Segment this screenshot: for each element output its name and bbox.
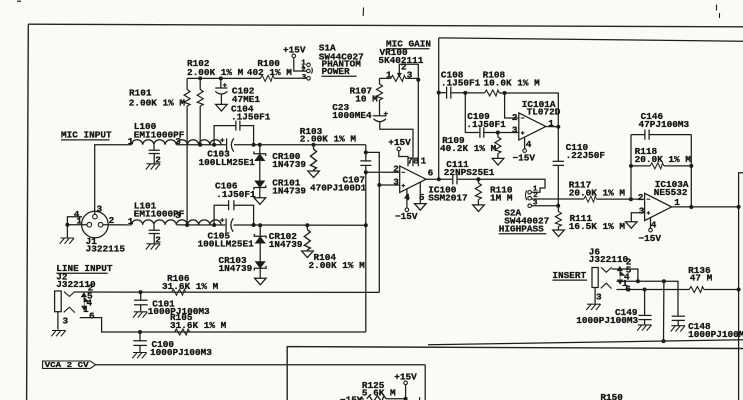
inductor L101 EMI1000PF [128, 200, 221, 245]
wire riser to low bus [663, 281, 665, 341]
junction return/output riser [662, 279, 666, 283]
wire R118 loop left vertical [630, 135, 632, 200]
junction send/return [636, 279, 640, 283]
terminal -15V lower [340, 395, 363, 400]
junction low bus [662, 339, 666, 343]
connector J1 XLR J322115 [74, 203, 126, 254]
junction C104 left [212, 143, 216, 147]
junction C106 right [252, 223, 256, 227]
connector J6 insert jack [592, 256, 632, 302]
resistor R105 [170, 312, 227, 335]
capacitor C110 .22J50F [553, 127, 606, 206]
node MIC INPUT label [61, 130, 112, 141]
svg-text:−15V: −15V [513, 152, 536, 163]
resistor R103 [300, 126, 357, 171]
zener CR103 1N4739 [219, 255, 267, 278]
svg-text:402 1% M: 402 1% M [247, 67, 292, 78]
svg-text:31.6K 1% M: 31.6K 1% M [170, 320, 227, 331]
svg-text:+: + [220, 218, 225, 226]
svg-text:3: 3 [596, 292, 602, 303]
junction output/R118 [689, 205, 693, 209]
wire XLR pin2 to L101 [103, 224, 132, 226]
svg-text:3: 3 [512, 124, 518, 135]
resistor R102 [184, 58, 244, 225]
ground C149 [637, 325, 651, 331]
capacitor C146 47PJ100M3 [631, 111, 691, 140]
resistor R111 [555, 206, 625, 232]
junction C108/C109 [463, 91, 467, 95]
wire stub lower [419, 397, 421, 400]
junction R125/+15V [404, 397, 408, 400]
resistor R104 [304, 225, 365, 271]
junction C100 [138, 330, 142, 334]
wire IC103A output [672, 206, 739, 208]
ground R109 [492, 158, 504, 165]
wire IC100 output [426, 178, 452, 180]
wire IC101A pin4 to -15V [513, 137, 536, 163]
svg-text:100LLM25E1: 100LLM25E1 [199, 157, 256, 168]
scan tick top-left [17, 0, 21, 2]
junction C110/R111/S2A [556, 204, 560, 208]
wire node B down through mic- to R105 row [365, 172, 367, 332]
switch S1A phantom power [283, 44, 312, 82]
resistor R107 [350, 78, 383, 115]
wire S2A pin2 to R117/IC103 pin2 [531, 198, 583, 200]
wire R118 loop right vertical [690, 135, 692, 207]
op-amp IC103A NE5532 [638, 179, 689, 230]
svg-text:7: 7 [407, 155, 413, 166]
svg-text:SSM2017: SSM2017 [428, 193, 467, 204]
svg-text:47 M: 47 M [690, 273, 713, 284]
svg-text:1N4739: 1N4739 [269, 239, 303, 250]
svg-text:+: + [220, 137, 225, 145]
svg-text:470PJ100D1: 470PJ100D1 [310, 183, 367, 194]
capacitor C23 1000ME4 electrolytic [332, 102, 413, 166]
scan tick top-middle [362, 8, 364, 17]
wire IC100 pin5 to ground [419, 182, 421, 203]
resistor R100 402 [247, 58, 307, 82]
svg-text:+15V: +15V [388, 137, 411, 148]
wire IC100 pin4 to -15V [395, 189, 418, 222]
zener CR102 1N4739 [254, 225, 303, 261]
svg-text:1N4739: 1N4739 [272, 186, 306, 197]
ground C100 [132, 353, 146, 359]
junction C109/R109/pin3 [496, 131, 500, 135]
wire line- row from J2 pin6 [80, 318, 366, 332]
ground C101 [133, 312, 147, 318]
svg-text:1000PJ100M3: 1000PJ100M3 [688, 329, 743, 340]
svg-text:100LLM25E1: 100LLM25E1 [198, 238, 255, 249]
resistor R118 [631, 146, 691, 169]
node A junction [364, 150, 368, 154]
wire J6 send row to return row [612, 269, 638, 281]
svg-text:MIC INPUT: MIC INPUT [61, 130, 112, 141]
junction IC101A output [556, 125, 560, 129]
wire R125 to +15V node [386, 398, 406, 400]
svg-text:8: 8 [413, 155, 419, 166]
capacitor C100 1000PJ100M3 [133, 332, 212, 358]
wire node B to IC100 pin2 [366, 171, 400, 173]
wire IC103A pin3 to ground [631, 213, 644, 222]
svg-text:VCA 2 CV: VCA 2 CV [45, 362, 90, 370]
ground R110 [473, 205, 485, 212]
svg-text:2.00K 1% M: 2.00K 1% M [300, 133, 357, 144]
wire R108 node down to IC101A pin2 [505, 93, 519, 118]
svg-text:−15V: −15V [395, 211, 418, 222]
capacitor C109 .1J50F1 [465, 93, 519, 138]
resistor R117 [569, 179, 645, 202]
wire to S2A pin1 [478, 179, 545, 192]
ground L101 center tap [146, 244, 160, 250]
ground L100 center tap [146, 164, 160, 170]
junction C149 [643, 288, 647, 292]
ground XLR [60, 238, 74, 244]
wire phantom rail [187, 77, 260, 79]
junction R118 left [629, 164, 633, 168]
connector J2 jack J322110 [55, 282, 95, 326]
power +15V IC100 pin7 [388, 137, 411, 166]
svg-text:1: 1 [548, 118, 554, 129]
svg-text:J322110: J322110 [589, 254, 629, 265]
svg-text:22NPS25E1: 22NPS25E1 [444, 167, 495, 178]
svg-text:1N4739: 1N4739 [219, 263, 253, 274]
node B junction (pin2 net) [364, 170, 368, 174]
svg-text:4: 4 [526, 139, 532, 150]
capacitor C102 47ME1 [215, 78, 260, 104]
box lower section frame [287, 347, 743, 400]
wire IC101A output [546, 126, 559, 128]
svg-text:3: 3 [175, 210, 181, 221]
wire pin3 node down to R106 row [378, 185, 380, 292]
svg-text:INSERT: INSERT [552, 270, 586, 281]
net line (IC100 output bus top) [439, 38, 743, 41]
inductor L100 EMI1000PF [128, 121, 221, 165]
ground CR101 [254, 198, 266, 205]
ground J6 [586, 304, 600, 310]
junction R108/feedback [503, 91, 507, 95]
svg-text:10.0K 1% M: 10.0K 1% M [484, 78, 541, 89]
resistor R110 1M [475, 179, 512, 205]
ground CR103 [254, 278, 266, 285]
capacitor C111 22NPS25E1 [444, 159, 495, 185]
capacitor C101 1000PJ100M3 [134, 292, 210, 317]
resistor R108 [465, 69, 540, 96]
wire J6 pin6 row [617, 289, 690, 291]
junction mic- end [364, 223, 368, 227]
junction R104/mic- [305, 223, 309, 227]
node LINE INPUT label [56, 263, 113, 290]
node INSERT label [552, 270, 587, 281]
svg-text:R150: R150 [600, 392, 623, 400]
potentiometer VR100 MIC GAIN 5K402111 [378, 39, 431, 82]
svg-text:.1J50F1: .1J50F1 [231, 112, 271, 123]
svg-text:3: 3 [407, 70, 413, 81]
svg-text:2: 2 [393, 164, 399, 175]
junction R103/mic+ [312, 143, 316, 147]
svg-text:3: 3 [302, 74, 307, 82]
junction R118 right [689, 164, 693, 168]
svg-text:10 M: 10 M [355, 94, 378, 105]
svg-text:.1J50F1: .1J50F1 [216, 189, 256, 200]
svg-text:1: 1 [421, 155, 427, 166]
wire feedback bus vertical [438, 38, 440, 179]
junction output/right bus [737, 205, 741, 209]
svg-text:J322115: J322115 [86, 244, 126, 255]
svg-text:3: 3 [393, 177, 399, 188]
power +15V lower [394, 371, 417, 400]
wire J6 sleeve to ground [594, 288, 596, 304]
junction R117/R118 net [629, 197, 633, 201]
svg-text:2.00K 1% M: 2.00K 1% M [129, 97, 186, 108]
capacitor C108 .1J50F1 [439, 69, 481, 98]
wire XLR pin1 to ground [67, 225, 87, 238]
ground R103 [308, 171, 320, 178]
svg-text:40.2K 1% M: 40.2K 1% M [440, 143, 497, 154]
svg-text:1000PJ100M3: 1000PJ100M3 [150, 347, 212, 358]
wire S2A pin3 to C110 node [532, 205, 559, 207]
svg-text:1N4739: 1N4739 [272, 159, 306, 170]
svg-text:20.0K 1% M: 20.0K 1% M [569, 188, 626, 199]
label J6 J322110 [589, 247, 629, 266]
junction CR102/mic- [258, 223, 262, 227]
switch S2A highpass [525, 186, 538, 208]
svg-text:3: 3 [639, 205, 645, 216]
junction CR100/mic+ [258, 143, 262, 147]
ground R104 [302, 251, 314, 258]
junction C101 [139, 290, 143, 294]
svg-text:+: + [384, 111, 389, 119]
ground IC103A pin3 [626, 222, 638, 229]
resistor R136 47 [688, 265, 739, 293]
svg-text:−15V: −15V [639, 233, 662, 244]
wire IC101A feedback loop [505, 93, 559, 127]
wire IC103A pin4 to -15V [639, 218, 662, 244]
label S1A SW44C027 PHANTOM POWER [319, 42, 364, 77]
svg-text:6: 6 [428, 168, 434, 179]
wire VR100 pin3 down to IC100 pin1 [417, 80, 419, 167]
junction C108 on feedback bus [437, 91, 441, 95]
junction VR100 pin3/wiper [416, 78, 420, 82]
resistor R125 labels [362, 380, 396, 399]
op-amp IC101A TL072D [512, 99, 561, 150]
capacitor C105 100LLM25E1 electrolytic [198, 218, 255, 250]
svg-text:TL072D: TL072D [527, 107, 561, 118]
wire low ground bus [428, 340, 743, 345]
svg-text:31.6K 1% M: 31.6K 1% M [162, 281, 219, 292]
wire right bus [739, 173, 743, 400]
svg-text:2.00K 1% M: 2.00K 1% M [309, 260, 366, 271]
ground R111 [553, 230, 565, 237]
capacitor C149 1000PJ100M3 [576, 290, 651, 326]
junction IC100 output / feedback bus [437, 177, 441, 181]
wire mic+ rail [177, 144, 226, 146]
svg-text:2.00K 1% M: 2.00K 1% M [187, 67, 244, 78]
label S2A SW440027 HIGHPASS [499, 207, 549, 234]
wire mic+ elbow down to node A [365, 145, 367, 153]
resistor R109 [440, 133, 501, 159]
svg-text:1000ME4: 1000ME4 [332, 110, 372, 121]
svg-text:POWER: POWER [322, 66, 351, 77]
wire J2 sleeve to ground [57, 312, 59, 330]
junction C104 right [252, 143, 256, 147]
capacitor C107 470PJ100D1 [310, 152, 371, 193]
junction pin3 node [377, 183, 381, 187]
capacitor C103 100LLM25E1 electrolytic [199, 137, 256, 168]
svg-text:+: + [223, 83, 228, 91]
svg-text:16.5K 1% M: 16.5K 1% M [569, 221, 626, 232]
svg-text:3: 3 [97, 203, 103, 214]
ground IC100 pin5 [415, 204, 427, 211]
svg-text:2: 2 [638, 192, 644, 203]
junction R102/mic- [185, 223, 189, 227]
scan tick top-right [717, 5, 720, 19]
capacitor C148 1000PJ100M3 [672, 316, 743, 340]
ground C148 [671, 326, 685, 332]
junction R136/right bus [737, 288, 741, 292]
resistor R101 [129, 78, 203, 144]
wire XLR shell pin4 [67, 217, 82, 225]
svg-text:1M M: 1M M [490, 193, 513, 204]
wire VCA 2 CV [96, 365, 426, 400]
wire line+ row [75, 291, 379, 293]
junction pin1/pin4 [65, 223, 69, 227]
wire mic input to L100 and down to XLR pin3 [95, 145, 132, 214]
capacitor C104 .1J50F1 bypass loop [214, 104, 271, 145]
svg-text:NE5532: NE5532 [654, 187, 688, 198]
ground C102 [216, 104, 228, 111]
zener CR100 1N4739 [254, 145, 307, 181]
svg-text:.1J50F1: .1J50F1 [466, 119, 506, 130]
svg-text:3: 3 [63, 315, 69, 326]
capacitor C106 .1J50F1 bypass loop [214, 181, 256, 225]
wire mic- rail [177, 224, 226, 226]
junction C106 left [212, 223, 216, 227]
svg-text:6: 6 [89, 310, 95, 321]
svg-text:1000PJ100M3: 1000PJ100M3 [576, 315, 638, 326]
svg-text:47PJ100M3: 47PJ100M3 [639, 119, 690, 130]
wire J6 pin4 row [617, 281, 679, 316]
svg-text:.22J50F: .22J50F [566, 150, 606, 161]
node VCA 2 CV flag [43, 361, 96, 370]
ground J2 [51, 331, 65, 337]
resistor R125 zigzag [367, 396, 386, 400]
svg-text:HIGHPASS: HIGHPASS [499, 224, 544, 235]
resistor R106 [162, 273, 219, 295]
junction C111/R110 [476, 177, 480, 181]
svg-text:3: 3 [533, 200, 538, 208]
svg-text:2: 2 [512, 112, 518, 123]
junction R101/mic+ [198, 143, 202, 147]
wire node A jog to IC100 pin3 [366, 152, 400, 185]
zener CR101 1N4739 [254, 178, 307, 198]
op-amp IC100 SSM2017 [393, 155, 467, 203]
